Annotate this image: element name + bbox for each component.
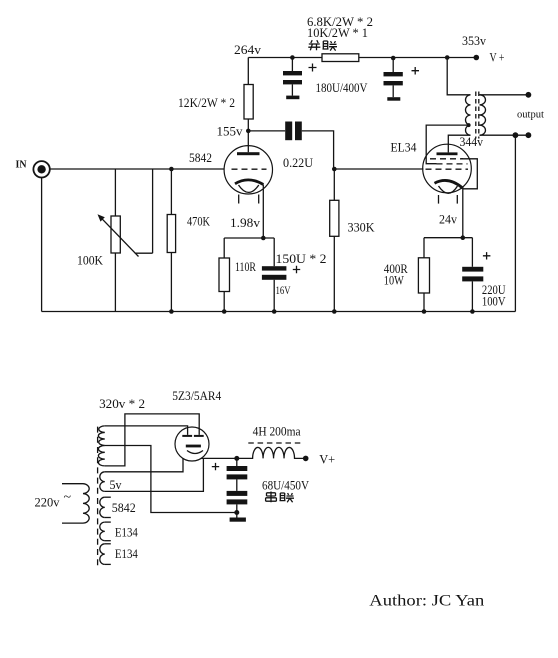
wire secondary top lead — [480, 94, 529, 96]
node 24v cathode junction dot — [461, 235, 466, 240]
wire OPT primary bottom to EL34 anode — [448, 135, 470, 152]
transformer T1 HV winding 320v lower — [98, 446, 104, 466]
node 110R ground dot — [222, 309, 227, 314]
wire 5v bottom lead to rectifier filament — [105, 458, 204, 491]
tube V1 5842 envelope — [224, 146, 272, 194]
wire 470K bottom to rail — [170, 253, 172, 312]
potentiometer VR1 arrowhead — [98, 214, 105, 221]
wire 220U top lead — [471, 238, 473, 267]
capacitor C2 180U/400V stem top — [392, 58, 394, 72]
tube V2 heater lead right — [456, 195, 458, 204]
input jack J1 outer ring — [33, 161, 49, 177]
resistor R4 110R body — [219, 258, 230, 292]
wire EL34 cathode drop — [462, 188, 464, 238]
potentiometer VR1 100K body — [111, 216, 120, 253]
node 470K ground dot — [169, 309, 174, 314]
terminal output bottom dot — [526, 132, 532, 138]
wire between series caps — [236, 479, 238, 491]
tube V3 filament bar — [186, 445, 201, 448]
wire pot bottom to ground rail — [114, 253, 116, 312]
svg-text:1.98v: 1.98v — [230, 215, 261, 230]
capacitor C3 150U plate 1 — [262, 266, 287, 270]
label chuan-lian (series) hanzi 1 — [266, 492, 277, 503]
wire E134 first stub bottom — [105, 540, 111, 542]
wire coupling cap to EL34 grid corner — [302, 131, 334, 169]
label plus sign 68U — [212, 463, 219, 470]
wire rectifier output to first cap — [201, 457, 237, 459]
transformer T1 heater winding E134 second — [100, 544, 105, 565]
capacitor C1 plate 1 — [283, 71, 302, 75]
tube V2 control grid dashes — [426, 168, 469, 170]
svg-text:180U/400V: 180U/400V — [316, 80, 369, 95]
resistor R3 6.8K/10K parallel body — [322, 54, 359, 62]
svg-text:4H 200ma: 4H 200ma — [253, 424, 301, 439]
capacitor C2 plate 2 — [384, 81, 403, 85]
terminal output top dot — [526, 92, 532, 98]
wire secondary bottom lead — [480, 134, 529, 136]
wire suppressor to cathode tie — [461, 159, 477, 189]
wire grid junction to EL34 — [334, 168, 423, 170]
wire 330K bottom lead — [333, 236, 335, 311]
svg-text:IN: IN — [16, 160, 28, 171]
tube V1 cathode arc — [235, 180, 263, 185]
wire B+ drop to OPT primary — [447, 58, 470, 95]
node PSU ground dot — [234, 510, 239, 515]
tube V3 5Z3/5AR4 envelope — [175, 427, 209, 461]
svg-text:5v: 5v — [110, 477, 122, 492]
svg-text:5842: 5842 — [112, 500, 136, 515]
tube V2 suppressor grid dashes — [430, 158, 463, 160]
tube V3 filament loop — [187, 451, 203, 454]
label chuan-lian (series) hanzi 2 — [280, 493, 295, 502]
svg-text:24v: 24v — [439, 212, 457, 227]
node first filter dot — [290, 55, 295, 60]
capacitor C1 180U/400V stem top — [291, 58, 293, 72]
label plus sign C2 — [412, 67, 420, 75]
wire 5842 winding stub bottom — [105, 517, 111, 519]
capacitor C1 ground stub bar — [286, 96, 299, 100]
wire pot top connection — [114, 169, 116, 216]
wire HV top lead to left plate — [105, 426, 188, 435]
wire 400R bottom lead — [423, 293, 425, 312]
tube V1 grid dashes — [232, 168, 267, 170]
node EL34 grid junction dot — [332, 167, 337, 172]
wire 110R bottom lead — [223, 292, 225, 312]
svg-text:320v * 2: 320v * 2 — [99, 396, 145, 411]
svg-text:344v: 344v — [460, 134, 484, 149]
wire pot wiper horizontal — [135, 252, 153, 254]
wire 150U bottom lead — [273, 280, 275, 312]
wire E134 first stub top — [105, 521, 111, 523]
label plus sign C3 — [293, 266, 300, 273]
svg-text:V +: V + — [490, 49, 505, 64]
wire EL34 cathode network horizontal — [424, 237, 472, 239]
tube V2 EL34 envelope — [423, 144, 472, 193]
node secondary ground junction dot — [513, 132, 519, 138]
wire primary bottom lead — [62, 522, 83, 524]
transformer T2 primary winding — [466, 95, 471, 135]
capacitor C6 68U plate 1 — [227, 466, 248, 471]
wire input jack ground drop — [41, 178, 43, 312]
wire cathode network horizontal — [224, 237, 274, 239]
transformer T1 HV winding 320v upper — [98, 426, 104, 446]
capacitor ground stub bar — [230, 518, 246, 522]
wire 12K resistor top lead — [247, 58, 249, 85]
transformer T1 5v winding — [100, 472, 105, 492]
tube V1 anode lead — [247, 131, 249, 152]
wire ultralinear tap to EL34 screen — [426, 125, 470, 164]
transformer T2 secondary winding — [479, 95, 485, 135]
node 220U ground dot — [470, 309, 475, 314]
svg-text:330K: 330K — [348, 220, 376, 235]
node second filter dot — [391, 56, 396, 61]
tube V2 cathode arc — [435, 180, 463, 188]
capacitor C7 68U plate 1 — [227, 491, 248, 496]
svg-text:155v: 155v — [217, 124, 244, 139]
node output transformer feed dot — [445, 55, 450, 60]
transformer T1 primary winding 220v — [83, 484, 89, 523]
wire input jack to 5842 grid — [50, 168, 224, 170]
capacitor C2 plate 1 — [384, 72, 403, 76]
tube V2 anode plate bar — [437, 152, 458, 155]
capacitor C4 0.22U plate 1 — [285, 122, 292, 141]
svg-text:100V: 100V — [482, 294, 506, 309]
wire 220U bottom lead — [471, 281, 473, 311]
tube V3 left plate bar — [182, 435, 192, 437]
wire E134 second stub bottom — [105, 563, 111, 565]
svg-text:68U/450V: 68U/450V — [262, 478, 310, 493]
wire cap bottom to ground node — [236, 504, 238, 517]
resistor R2 470K body — [167, 215, 175, 253]
svg-text:110R: 110R — [235, 259, 256, 274]
capacitor C5 220U plate 1 — [462, 267, 483, 272]
svg-text:470K: 470K — [187, 214, 210, 229]
svg-text:10W: 10W — [384, 273, 405, 288]
svg-text:E134: E134 — [115, 525, 138, 540]
node 400R ground dot — [422, 309, 427, 314]
tube V1 heater loop — [239, 185, 259, 192]
label plus sign C5 — [483, 252, 491, 259]
transformer T1 core — [97, 427, 99, 567]
svg-text:100K: 100K — [77, 253, 104, 268]
svg-text:output: output — [517, 110, 544, 121]
svg-text:5Z3/5AR4: 5Z3/5AR4 — [172, 388, 221, 403]
choke L1 core dashes — [248, 442, 301, 444]
wire ground rail — [42, 311, 516, 313]
svg-text:0.22U: 0.22U — [283, 155, 314, 170]
svg-text:E134: E134 — [115, 546, 138, 561]
capacitor C2 ground stub bar — [387, 97, 400, 101]
wire 470K top — [170, 169, 172, 215]
wire cap stem top — [236, 458, 238, 466]
wire HV center tap to ground — [105, 446, 237, 513]
tube V2 heater loop — [439, 186, 458, 193]
svg-text:16V: 16V — [276, 283, 291, 297]
node 150U ground dot — [272, 309, 277, 314]
svg-text:264v: 264v — [234, 42, 262, 57]
wire 400R top lead — [423, 238, 425, 258]
svg-text:150U * 2: 150U * 2 — [276, 251, 327, 266]
node choke input dot — [234, 456, 239, 461]
wire pot wiper riser — [152, 169, 154, 253]
label plus sign C1 — [309, 64, 317, 72]
capacitor C7 68U plate 2 — [227, 499, 248, 504]
transformer T1 heater winding 5842 — [100, 497, 105, 517]
capacitor C6 68U plate 2 — [227, 474, 248, 479]
wire secondary return to ground rail — [514, 135, 516, 311]
node ultralinear tap dot — [467, 123, 471, 127]
choke L1 winding — [237, 447, 306, 458]
resistor R5 330K body — [330, 200, 339, 236]
wire primary top lead — [62, 483, 83, 485]
tube V2 screen grid dashes — [437, 163, 468, 165]
wire 110R top lead — [223, 238, 225, 258]
svg-text:10K/2W * 1: 10K/2W * 1 — [307, 25, 368, 40]
label bing-lian (parallel) hanzi 1 — [308, 40, 320, 50]
wire 5v top lead to rectifier filament — [105, 458, 183, 471]
svg-text:V+: V+ — [319, 451, 335, 466]
capacitor C1 plate 2 — [283, 80, 302, 84]
wire top rail B+ — [248, 57, 476, 59]
svg-text:~: ~ — [64, 490, 72, 505]
wire 5842 winding stub top — [105, 496, 111, 498]
capacitor C4 0.22U plate 2 — [295, 122, 302, 141]
svg-text:353v: 353v — [462, 33, 486, 48]
tube V1 heater lead right — [258, 195, 260, 204]
node 5842 cathode junction dot — [261, 236, 266, 241]
tube V3 right plate bar — [194, 435, 204, 437]
transformer T1 heater winding E134 first — [100, 522, 105, 541]
svg-text:5842: 5842 — [189, 150, 212, 165]
node grid junction dot — [169, 167, 174, 172]
wire 5842 cathode drop — [262, 185, 264, 239]
wire E134 second stub top — [105, 543, 111, 545]
tube V1 anode plate bar — [237, 152, 260, 155]
transformer T2 core — [476, 92, 479, 139]
resistor R6 400R body — [418, 258, 429, 293]
capacitor C5 220U plate 2 — [462, 276, 483, 281]
node 155v dot — [246, 129, 251, 134]
svg-text:220v: 220v — [35, 494, 60, 509]
resistor R1 12K/2W body — [244, 85, 253, 120]
tube V2 heater lead left — [438, 195, 440, 204]
capacitor C1 stem bottom — [291, 84, 293, 95]
wire 12K resistor bottom lead — [247, 119, 249, 131]
wire 155v to coupling cap — [248, 130, 285, 132]
input jack J1 center pin — [37, 165, 45, 173]
wire HV bottom lead to right plate — [105, 414, 199, 466]
capacitor C3 150U plate 2 — [262, 275, 287, 280]
capacitor C2 stem bottom — [392, 85, 394, 97]
terminal V+ dot — [474, 55, 480, 61]
wire 330K top lead — [333, 169, 335, 200]
terminal V+ PSU dot — [303, 456, 309, 462]
label bing-lian (parallel) hanzi 2 — [323, 41, 338, 51]
svg-text:Author: JC Yan: Author: JC Yan — [369, 593, 484, 610]
svg-text:EL34: EL34 — [391, 140, 417, 155]
svg-text:12K/2W * 2: 12K/2W * 2 — [178, 95, 235, 110]
tube V1 heater lead left — [238, 195, 240, 204]
wire 150U top lead — [273, 238, 275, 266]
potentiometer VR1 wiper arrow — [101, 218, 139, 257]
node 330K ground dot — [332, 309, 337, 314]
